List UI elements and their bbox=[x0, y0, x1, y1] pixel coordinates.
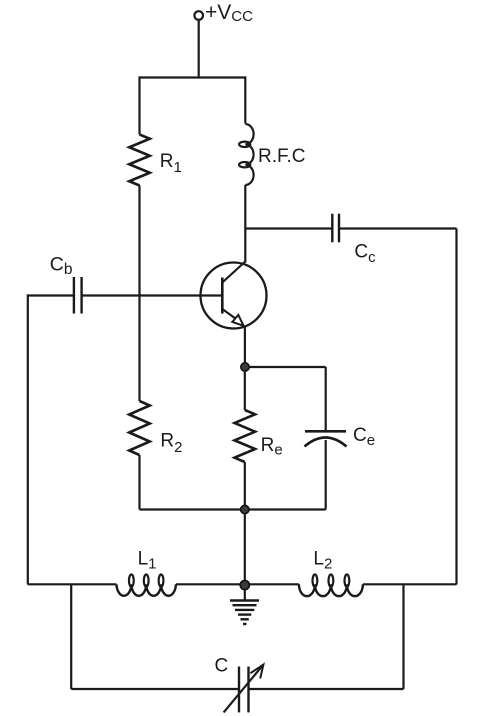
svg-text:Re: Re bbox=[261, 435, 283, 458]
svg-text:L1: L1 bbox=[138, 548, 157, 572]
svg-text:Cc: Cc bbox=[354, 241, 376, 266]
svg-text:R.F.C: R.F.C bbox=[258, 146, 306, 167]
svg-text:L2: L2 bbox=[313, 548, 332, 572]
svg-text:+VCC: +VCC bbox=[205, 1, 253, 25]
svg-text:R1: R1 bbox=[160, 151, 182, 176]
svg-text:Ce: Ce bbox=[353, 425, 375, 449]
svg-text:C: C bbox=[215, 656, 229, 677]
svg-text:Cb: Cb bbox=[50, 254, 73, 278]
svg-text:R2: R2 bbox=[160, 431, 182, 456]
